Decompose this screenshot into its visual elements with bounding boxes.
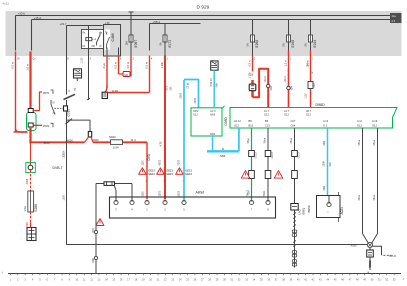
svg-text:S84: S84 [329,162,332,167]
svg-text:1870: 1870 [43,91,50,95]
svg-text:G12: G12 [264,113,269,117]
svg-text:B080: B080 [307,205,311,212]
svg-text:05sw: 05sw [373,195,376,201]
svg-text:E288: E288 [34,204,38,212]
svg-text:2 6: 2 6 [392,19,396,23]
svg-text:GE13: GE13 [255,152,258,159]
svg-text:GE13: GE13 [271,152,274,159]
svg-text:D98D: D98D [224,117,228,126]
svg-text:E168: E168 [291,40,295,48]
svg-text:1 30k: 1 30k [249,72,252,79]
svg-text:G 2: G 2 [323,124,328,128]
svg-text:GE13: GE13 [298,152,301,159]
svg-text:G12: G12 [193,113,198,116]
svg-text:+15 A: +15 A [34,16,42,20]
svg-text:G12: G12 [372,124,377,128]
svg-text:1 30k: 1 30k [160,61,164,68]
svg-text:4000: 4000 [93,138,100,142]
svg-text:GE13: GE13 [185,169,192,173]
svg-text:C015: C015 [67,109,71,117]
svg-text:GE13: GE13 [166,172,173,176]
svg-text:E164: E164 [313,40,317,48]
svg-text:5303: 5303 [178,159,181,165]
svg-text:+61 f: +61 f [60,22,67,26]
svg-text:5A: 5A [160,42,163,45]
svg-text:11.03: 11.03 [81,57,84,63]
svg-text:GD: GD [124,73,128,77]
svg-text:5A: 5A [246,43,250,46]
svg-text:S84: S84 [220,154,226,158]
svg-text:G12: G12 [306,113,311,117]
svg-text:1500: 1500 [63,195,66,201]
svg-text:4000: 4000 [43,141,50,145]
svg-text:10A: 10A [126,41,129,46]
svg-text:B5: B5 [249,119,253,123]
svg-text:D98D: D98D [316,103,326,107]
svg-text:2009: 2009 [180,92,183,98]
svg-text:C486: C486 [111,33,115,41]
svg-text:S043: S043 [109,135,116,139]
svg-text:0.5 ro: 0.5 ro [126,61,130,68]
svg-text:8f: 8f [53,102,55,105]
svg-text:0.5 rt: 0.5 rt [248,60,252,66]
svg-text:41.7: 41.7 [264,109,270,113]
svg-text:05bl: 05bl [323,186,326,191]
svg-text:E172: E172 [168,40,172,48]
svg-text:E097: E097 [134,40,138,48]
svg-text:05sw: 05sw [290,138,293,144]
svg-text:G12: G12 [357,124,362,128]
svg-text:600: 600 [26,222,29,227]
svg-text:A021: A021 [340,207,344,215]
svg-text:T4k6: T4k6 [263,191,266,197]
svg-text:M05: M05 [210,113,215,116]
svg-text:1.5A: 1.5A [23,206,27,212]
svg-text:4000: 4000 [67,139,73,143]
svg-text:4303: 4303 [159,159,162,165]
svg-text:A4.12: A4.12 [234,119,241,123]
svg-text:C13: C13 [265,124,270,128]
svg-text:4x21: 4x21 [3,2,10,6]
svg-text:S86: S86 [215,82,218,87]
svg-text:A 12: A 12 [323,119,329,123]
svg-text:0.5 ro: 0.5 ro [114,61,118,68]
svg-text:5A: 5A [282,43,286,46]
svg-text:G12: G12 [284,113,289,117]
svg-text:GE13: GE13 [148,172,155,176]
svg-text:+30 b: +30 b [18,12,26,16]
svg-text:41.7: 41.7 [284,109,290,113]
svg-text:S84: S84 [290,85,293,90]
svg-text:DVD: DVD [147,153,151,160]
svg-text:0.5 ro: 0.5 ro [145,61,149,68]
svg-text:05ge: 05ge [247,138,250,144]
svg-text:5303: 5303 [178,190,181,196]
svg-text:1.3 rt: 1.3 rt [284,60,288,66]
svg-text:0.5b 30: 0.5b 30 [210,78,213,87]
svg-text:11 rt: 11 rt [131,138,137,142]
svg-text:05sw: 05sw [358,195,361,201]
svg-text:GE13: GE13 [166,169,173,173]
svg-text:130 rt: 130 rt [264,76,267,82]
svg-text:S84: S84 [270,85,273,90]
svg-text:8/: 8/ [100,45,102,48]
svg-text:GE13: GE13 [185,172,192,176]
svg-text:C07: C07 [291,119,296,123]
svg-text:A8Gd: A8Gd [196,191,205,195]
svg-text:1110: 1110 [142,160,145,166]
svg-text:5GE: 5GE [166,85,169,90]
svg-text:A 13: A 13 [372,119,378,123]
svg-text:+58 d: +58 d [153,20,161,24]
svg-text:154 rt: 154 rt [307,61,310,67]
svg-text:0.5A: 0.5A [113,145,119,149]
svg-text:B13: B13 [249,124,254,128]
svg-text:1803: 1803 [43,124,50,128]
svg-text:4006: 4006 [25,178,29,184]
svg-text:2009: 2009 [194,97,197,103]
svg-text:05bl: 05bl [323,141,326,146]
svg-text:4 sw: 4 sw [102,63,106,68]
svg-text:C64: C64 [291,124,296,128]
svg-text:B6: B6 [265,119,269,123]
svg-text:GE13: GE13 [148,169,155,173]
svg-text:A 11: A 11 [357,119,363,123]
svg-text:X05 D: X05 D [389,255,396,258]
svg-text:G12: G12 [234,124,239,128]
svg-text:46.7: 46.7 [306,109,312,113]
svg-text:LAO: LAO [298,209,302,214]
svg-text:05sw: 05sw [373,140,376,146]
svg-text:DVB-T: DVB-T [53,166,63,170]
svg-text:05sw: 05sw [264,138,267,144]
svg-text:1303: 1303 [159,190,162,196]
svg-text:B08Q: B08Q [302,208,306,215]
svg-text:1157: 1157 [305,93,308,99]
svg-text:05sw: 05sw [358,140,361,146]
svg-text:S16: S16 [313,82,316,87]
svg-text:8M: 8M [92,45,95,48]
svg-text:4 30: 4 30 [159,141,162,146]
svg-text:138 rt: 138 rt [284,76,287,82]
svg-text:D 929: D 929 [197,5,210,11]
svg-text:5BL: 5BL [170,86,173,91]
svg-text:11a: 11a [392,14,397,18]
svg-text:2009: 2009 [323,161,326,167]
svg-text:5A: 5A [304,43,308,46]
svg-text:+ 50: + 50 [105,22,111,25]
svg-text:0.5 ro: 0.5 ro [11,61,15,68]
svg-text:1110: 1110 [142,191,145,197]
svg-text:E268: E268 [255,40,259,48]
svg-text:1500: 1500 [63,153,66,159]
svg-text:1.6 ro: 1.6 ro [26,63,30,70]
svg-text:1129: 1129 [112,89,119,93]
svg-text:M04: M04 [210,133,215,136]
